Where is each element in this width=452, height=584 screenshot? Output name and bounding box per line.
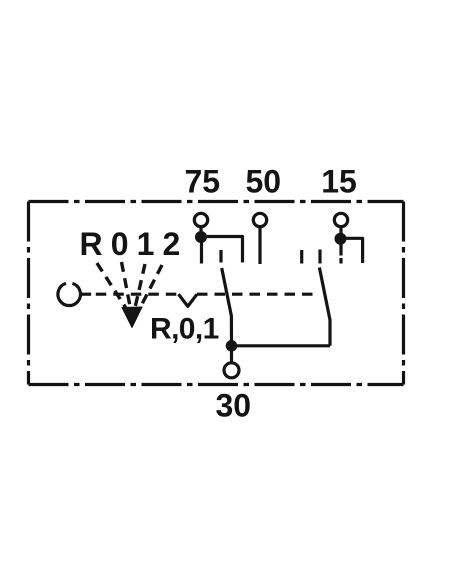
position pointer arrowhead bbox=[122, 307, 142, 328]
position line 0 (dashed) bbox=[122, 262, 132, 314]
position line R (dashed) bbox=[97, 263, 129, 312]
svg-text:R,0,1: R,0,1 bbox=[150, 313, 219, 346]
junction dot (75 contact) bbox=[195, 231, 207, 243]
wire: common bus from 15 arm to junction bbox=[232, 344, 331, 347]
dashed actuating line (continues to 15 arm) bbox=[197, 293, 316, 296]
wire: terminal 75 to junction dot bbox=[199, 227, 202, 233]
position line 1 (dashed) bbox=[134, 264, 145, 312]
wire: rotor stub bbox=[80, 293, 91, 296]
detent notch (V) in actuating line bbox=[179, 294, 198, 306]
svg-text:15: 15 bbox=[321, 164, 357, 200]
svg-text:75: 75 bbox=[185, 164, 221, 200]
fixed contact fingers of 15 (below-dot finger with gap, bridge, right finger) bbox=[341, 238, 363, 263]
wire: terminal 15 to junction dot bbox=[339, 227, 342, 234]
moving contact tip of 15 bbox=[318, 250, 321, 264]
svg-text:50: 50 bbox=[246, 164, 282, 200]
fixed contact finger (x=302) bbox=[300, 250, 303, 264]
fixed contact fingers of 75 (left finger, bridge, right finger) bbox=[201, 237, 243, 264]
wire: junction to terminal 30 bbox=[230, 351, 233, 363]
moving contact tip of 75 bbox=[219, 250, 222, 263]
svg-text:R 0 1 2: R 0 1 2 bbox=[80, 226, 180, 262]
terminal 15 (pin circle) bbox=[334, 213, 347, 226]
position line 2 (dashed) bbox=[140, 265, 163, 309]
rotary switch rotor (key contact circle with gap at top) bbox=[58, 283, 81, 305]
terminal 75 (pin circle) bbox=[194, 213, 207, 226]
moving contact arm of 75 bbox=[222, 268, 232, 346]
wire: terminal 50 stub bbox=[258, 227, 261, 264]
junction dot (15 contact) bbox=[335, 233, 347, 245]
moving contact arm of 15 bbox=[319, 268, 330, 346]
terminal 50 (pin circle) bbox=[253, 213, 266, 226]
junction dot (common / terminal 30) bbox=[226, 340, 238, 352]
dashed actuating line (rotor to contacts) bbox=[96, 293, 179, 296]
switch housing (dash-dot outline) bbox=[29, 202, 404, 385]
terminal 30 (pin circle) bbox=[224, 363, 239, 378]
svg-text:30: 30 bbox=[216, 388, 252, 424]
